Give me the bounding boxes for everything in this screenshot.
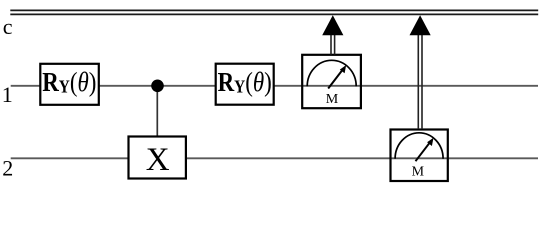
measurement M2 (qubit 2): [391, 130, 448, 182]
classical arrow from M2 to register c: [410, 15, 431, 129]
gate RY(theta) #2 U2: [216, 64, 274, 105]
wire qubit 2: [11, 157, 538, 159]
svg-text:c: c: [3, 14, 13, 39]
measurement M1 (qubit 1): [302, 55, 361, 108]
label c: [3, 14, 13, 39]
control dot: [151, 80, 164, 93]
svg-text:2: 2: [2, 155, 13, 180]
gate RY(theta) #1 U1: [40, 64, 99, 105]
classical arrow from M1 to register c: [322, 15, 343, 54]
gate X Q: [129, 137, 186, 179]
wire qubit 1: [11, 85, 538, 87]
svg-text:RY(θ): RY(θ): [42, 68, 96, 97]
control vertical wire (dot to X gate): [156, 86, 158, 137]
classical register double line c: [10, 10, 538, 14]
label 1: [2, 82, 13, 107]
svg-text:1: 1: [2, 82, 13, 107]
svg-text:RY(θ): RY(θ): [218, 68, 272, 97]
svg-text:X: X: [146, 142, 170, 178]
svg-text:M: M: [412, 165, 425, 180]
label 2: [2, 155, 13, 180]
svg-text:M: M: [326, 92, 339, 107]
